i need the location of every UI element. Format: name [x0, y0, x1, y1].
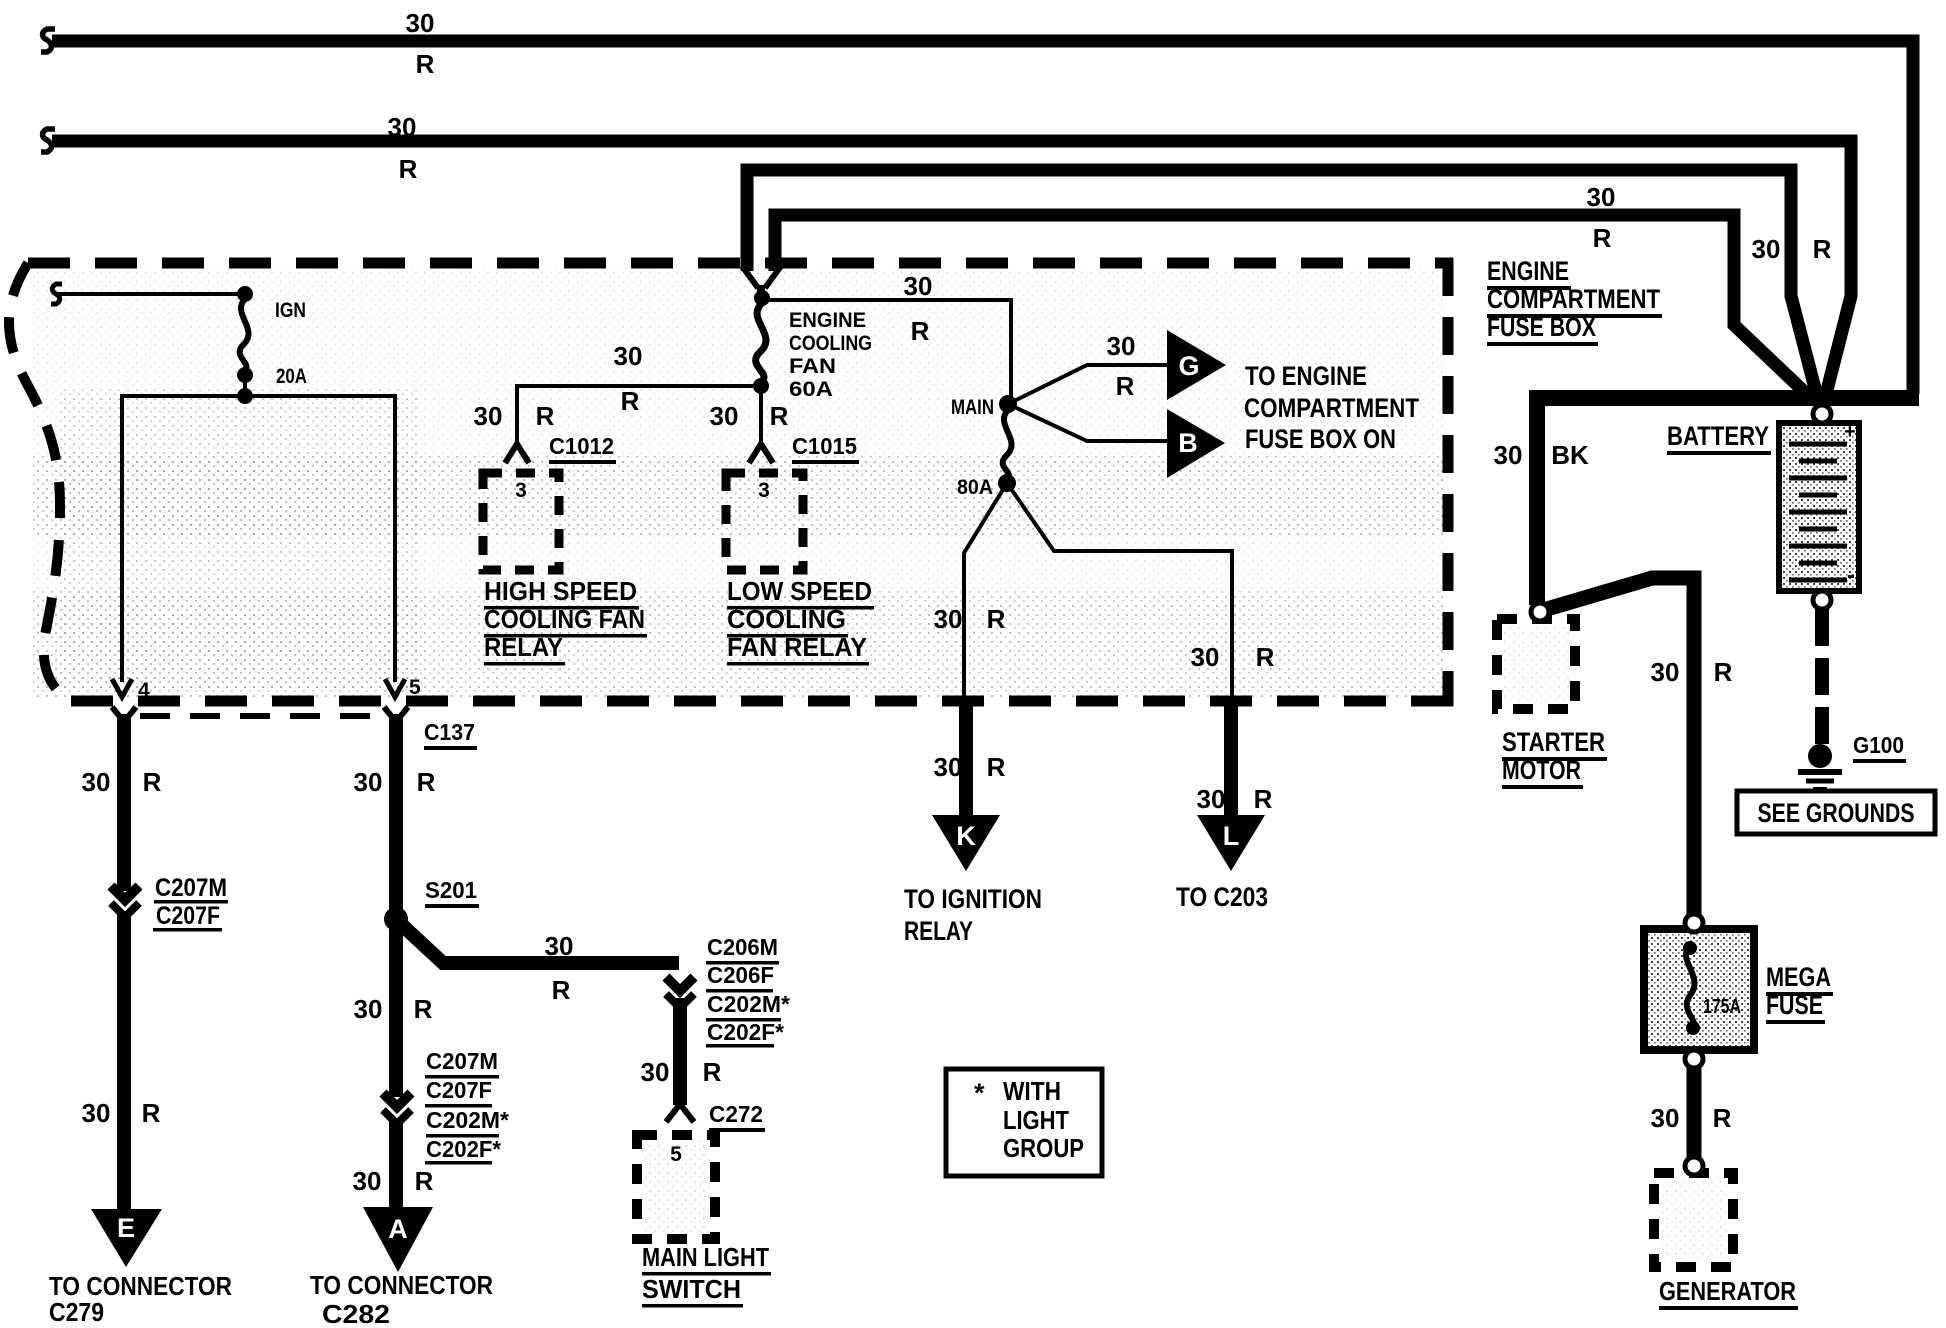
svg-text:BATTERY: BATTERY — [1667, 421, 1769, 451]
wire 30 R pin 4 to C207M connector — [117, 714, 131, 891]
svg-text:3: 3 — [515, 479, 527, 502]
svg-text:GROUP: GROUP — [1003, 1133, 1084, 1163]
triangle connector B — [1167, 409, 1225, 478]
svg-text:R: R — [703, 1057, 722, 1087]
svg-text:30: 30 — [1752, 234, 1781, 264]
svg-text:C202F*: C202F* — [426, 1136, 501, 1162]
svg-text:COMPARTMENT: COMPARTMENT — [1244, 393, 1419, 423]
mega fuse box — [1644, 929, 1754, 1050]
label TO ENGINE COMPARTMENT FUSE BOX ON — [1244, 361, 1419, 454]
label C207M C207F left — [153, 874, 228, 932]
svg-text:5: 5 — [409, 676, 421, 699]
wire 30 R top bus A: horizontal run and right vertical to battery — [52, 41, 1913, 394]
starter motor dashed box — [1497, 619, 1575, 709]
engine compartment fuse box dashed border: bottom edge — [70, 696, 1453, 707]
connector C1015 fork — [749, 444, 773, 463]
svg-text:ENGINE: ENGINE — [789, 309, 866, 332]
label MAIN LIGHT SWITCH — [642, 1242, 771, 1308]
svg-text:S201: S201 — [425, 877, 477, 903]
wire 30 R S201 to lower C207M connector — [389, 919, 403, 1097]
label TO CONNECTOR C279 — [49, 1271, 232, 1327]
node at 60A fuse bottom — [753, 378, 769, 394]
node on distribution rail — [237, 388, 253, 404]
generator dashed box — [1654, 1173, 1733, 1267]
svg-text:5: 5 — [670, 1143, 682, 1166]
svg-text:30: 30 — [82, 1098, 111, 1128]
high speed cooling fan relay pin 3 dashed box — [483, 473, 559, 570]
main light switch pin 5 dashed box — [637, 1135, 715, 1239]
svg-text:30: 30 — [82, 767, 111, 797]
svg-text:MAIN LIGHT: MAIN LIGHT — [642, 1242, 769, 1272]
note box WITH LIGHT GROUP — [946, 1069, 1102, 1176]
svg-text:20A: 20A — [276, 365, 307, 388]
svg-text:30: 30 — [354, 994, 383, 1024]
svg-text:LIGHT: LIGHT — [1003, 1105, 1069, 1135]
svg-text:30: 30 — [1587, 182, 1616, 212]
svg-text:STARTER: STARTER — [1502, 727, 1605, 757]
svg-text:30: 30 — [710, 401, 739, 431]
svg-text:BK: BK — [1551, 440, 1589, 470]
svg-text:IGN: IGN — [275, 299, 306, 322]
wire 30 R bus B: S-hook left end — [41, 129, 55, 152]
wire 30 R bus D: up from fuse box, right run, 45 slant to battery — [775, 215, 1813, 400]
label ENGINE COMPARTMENT FUSE BOX — [1487, 256, 1662, 346]
svg-text:C207M: C207M — [155, 874, 227, 902]
svg-text:30: 30 — [406, 8, 435, 38]
svg-text:C137: C137 — [424, 719, 475, 745]
label TO CONNECTOR C282 — [310, 1270, 493, 1328]
distribution rail rectangle to pins 4 and 5 — [122, 396, 395, 682]
low speed cooling fan relay pin 3 dashed box — [726, 473, 803, 570]
svg-text:+: + — [1844, 421, 1856, 443]
svg-text:C272: C272 — [709, 1101, 763, 1127]
triangle connector G — [1167, 330, 1226, 400]
svg-text:30: 30 — [934, 604, 963, 634]
wire from 80A node down-right to pin L — [1007, 483, 1232, 701]
battery plates — [1789, 444, 1847, 580]
terminal circle mega fuse top — [1685, 914, 1703, 932]
splice S201 node — [384, 907, 408, 931]
svg-text:60A: 60A — [789, 378, 833, 401]
svg-text:C206M: C206M — [707, 934, 778, 960]
terminal circle mega fuse bottom — [1685, 1050, 1703, 1068]
svg-text:R: R — [1813, 234, 1832, 264]
connector C207M C207F chevrons on right wire — [383, 1093, 411, 1107]
label STARTER MOTOR — [1502, 727, 1607, 789]
label TO IGNITION RELAY — [904, 884, 1042, 946]
engine compartment fuse box dashed border: right edge — [1443, 258, 1454, 706]
label MEGA FUSE — [1766, 962, 1833, 1024]
funnel connector where bus C and D enter fuse box — [742, 266, 781, 288]
svg-text:R: R — [1256, 642, 1275, 672]
wire 30 R fuse box pin L stub — [1224, 701, 1238, 817]
svg-text:30: 30 — [1107, 331, 1136, 361]
svg-text:C1015: C1015 — [792, 433, 857, 459]
svg-text:K: K — [956, 821, 976, 851]
svg-text:R: R — [987, 752, 1006, 782]
svg-text:COOLING FAN: COOLING FAN — [484, 604, 645, 634]
svg-text:MEGA: MEGA — [1766, 962, 1831, 992]
wire 30 R mega fuse to generator — [1687, 1068, 1702, 1157]
svg-text:175A: 175A — [1703, 996, 1741, 1018]
wire 30 R C207F to arrow E — [117, 911, 131, 1212]
svg-text:LOW SPEED: LOW SPEED — [727, 576, 872, 606]
wire 30 R top bus A: S-hook left end — [41, 29, 55, 52]
node at IGN fuse bottom — [237, 367, 253, 383]
svg-text:COMPARTMENT: COMPARTMENT — [1487, 284, 1660, 314]
svg-text:30: 30 — [474, 401, 503, 431]
svg-text:SEE GROUNDS: SEE GROUNDS — [1758, 798, 1915, 828]
engine compartment fuse box interior stipple — [32, 268, 1444, 698]
label WITH LIGHT GROUP — [1003, 1076, 1084, 1163]
mega fuse 175A wavy element — [1686, 945, 1695, 1030]
svg-text:GENERATOR: GENERATOR — [1659, 1276, 1796, 1306]
wire 30 BK battery to starter motor — [1529, 398, 1545, 605]
label G100 — [1853, 732, 1906, 763]
connector C206M C206F chevrons — [666, 977, 694, 991]
svg-text:R: R — [416, 49, 435, 79]
svg-text:30: 30 — [641, 1057, 670, 1087]
svg-text:R: R — [142, 1098, 161, 1128]
battery box — [1779, 423, 1859, 591]
wire 30 R bus B: horizontal run, right vertical, slant to battery — [52, 141, 1851, 398]
wire 30 R S201 branch to C206M — [402, 925, 679, 963]
label BATTERY — [1667, 421, 1771, 455]
svg-text:TO ENGINE: TO ENGINE — [1245, 361, 1367, 391]
wire 30 R to arrow A — [389, 1118, 403, 1212]
svg-text:C207F: C207F — [156, 902, 220, 930]
svg-text:30: 30 — [1494, 440, 1523, 470]
svg-text:4: 4 — [138, 679, 150, 702]
node 80A — [998, 474, 1016, 492]
wire 30 R from 60A fuse node to connector C1012 — [517, 386, 761, 444]
svg-text:80A: 80A — [957, 476, 993, 499]
svg-text:R: R — [987, 604, 1006, 634]
terminal circle at starter motor — [1531, 603, 1549, 621]
wire 30 R C206 connector to C272 — [673, 998, 687, 1105]
svg-text:-: - — [1847, 562, 1855, 589]
svg-text:TO CONNECTOR: TO CONNECTOR — [310, 1270, 493, 1300]
svg-text:R: R — [621, 386, 640, 416]
wire 30 R bus C: up from fuse box, right run, down to battery — [747, 170, 1817, 396]
svg-text:R: R — [1116, 371, 1135, 401]
svg-text:C202F*: C202F* — [707, 1019, 784, 1045]
svg-text:COOLING: COOLING — [727, 604, 846, 634]
svg-text:C202M*: C202M* — [707, 991, 790, 1017]
svg-text:C282: C282 — [322, 1299, 390, 1328]
ground G100 symbol — [1808, 744, 1832, 768]
svg-text:HIGH SPEED: HIGH SPEED — [484, 576, 637, 606]
label HIGH SPEED COOLING FAN RELAY — [484, 576, 647, 666]
svg-text:FAN: FAN — [789, 355, 836, 378]
connector C137 dashed tie line — [140, 713, 380, 719]
connector C272 fork — [666, 1104, 694, 1122]
svg-text:*: * — [974, 1078, 985, 1108]
svg-text:SWITCH: SWITCH — [642, 1274, 741, 1304]
svg-text:R: R — [417, 767, 436, 797]
svg-text:R: R — [399, 154, 418, 184]
svg-text:30: 30 — [1651, 1103, 1680, 1133]
svg-text:30: 30 — [904, 271, 933, 301]
svg-text:COOLING: COOLING — [789, 332, 872, 355]
arrow E to connector C279 — [91, 1209, 162, 1267]
svg-text:30: 30 — [354, 767, 383, 797]
svg-text:MAIN: MAIN — [951, 396, 994, 419]
battery terminal circle bottom — [1813, 591, 1831, 609]
svg-text:TO C203: TO C203 — [1176, 882, 1268, 912]
svg-text:R: R — [143, 767, 162, 797]
svg-text:B: B — [1178, 428, 1198, 458]
svg-text:C206F: C206F — [707, 962, 774, 988]
fuse MAIN 80A wavy element — [1003, 410, 1012, 478]
arrowhead pin 4 — [112, 679, 132, 697]
svg-text:C207F: C207F — [426, 1077, 492, 1103]
svg-text:G100: G100 — [1853, 732, 1904, 758]
svg-text:R: R — [1593, 223, 1612, 253]
svg-text:R: R — [1714, 657, 1733, 687]
node at IGN fuse top — [237, 286, 253, 302]
svg-text:30: 30 — [1197, 784, 1226, 814]
svg-text:R: R — [1254, 784, 1273, 814]
svg-text:30: 30 — [353, 1166, 382, 1196]
svg-text:G: G — [1178, 351, 1199, 381]
svg-text:C279: C279 — [49, 1297, 104, 1327]
label ENGINE COOLING FAN 60A — [789, 309, 872, 401]
svg-text:FUSE BOX ON: FUSE BOX ON — [1245, 424, 1396, 454]
IGN feed wire: S-hook left end — [51, 284, 62, 304]
label C207M C207F C202M C202F right — [425, 1048, 509, 1165]
connector C137 fork on right wire — [384, 707, 408, 722]
wire 30 R fuse box pin K stub — [959, 701, 973, 817]
wire from MAIN node to triangle G — [1008, 365, 1167, 404]
note box SEE GROUNDS — [1737, 791, 1935, 834]
svg-text:WITH: WITH — [1003, 1076, 1061, 1106]
engine compartment fuse box dashed border: wavy left edge — [9, 263, 70, 701]
svg-text:FAN RELAY: FAN RELAY — [727, 632, 867, 662]
svg-text:MOTOR: MOTOR — [1502, 755, 1581, 785]
label C206M C206F C202M C202F — [706, 934, 790, 1048]
svg-text:30: 30 — [388, 112, 417, 142]
label LOW SPEED COOLING FAN RELAY — [727, 576, 874, 666]
svg-text:R: R — [911, 316, 930, 346]
svg-text:30: 30 — [545, 931, 574, 961]
svg-text:TO IGNITION: TO IGNITION — [904, 884, 1042, 914]
svg-text:30: 30 — [934, 752, 963, 782]
node MAIN — [999, 395, 1017, 413]
svg-text:30: 30 — [614, 341, 643, 371]
svg-text:R: R — [536, 401, 555, 431]
svg-text:R: R — [415, 1166, 434, 1196]
svg-text:3: 3 — [758, 479, 770, 502]
terminal circle generator — [1685, 1157, 1703, 1175]
wire from 80A node down-left to pin K — [964, 483, 1007, 701]
battery terminal circle top — [1813, 405, 1831, 423]
wire starter motor to mega fuse — [1547, 578, 1694, 916]
arrowhead pin 5 — [385, 679, 405, 697]
svg-text:ENGINE: ENGINE — [1487, 256, 1569, 286]
wire from MAIN node to triangle B — [1008, 404, 1167, 441]
svg-text:C207M: C207M — [426, 1048, 498, 1074]
IGN feed wire horizontal — [58, 292, 245, 296]
svg-text:E: E — [117, 1213, 135, 1243]
svg-text:R: R — [552, 975, 571, 1005]
svg-text:30: 30 — [1651, 657, 1680, 687]
svg-text:A: A — [388, 1214, 408, 1244]
arrow L to C203 — [1197, 815, 1265, 871]
svg-text:FUSE: FUSE — [1766, 990, 1823, 1020]
connector C1012 fork — [505, 444, 529, 463]
fuse ENGINE COOLING FAN 60A wavy element — [756, 303, 766, 381]
battery ground dashed wire — [1815, 609, 1829, 748]
svg-text:C1012: C1012 — [549, 433, 614, 459]
wire 30 R from 60A fuse top to MAIN node — [762, 300, 1011, 400]
arrow A to connector C282 — [363, 1207, 433, 1272]
svg-text:R: R — [770, 401, 789, 431]
svg-text:RELAY: RELAY — [484, 632, 563, 662]
wire 30 R pin 5 to splice S201 — [389, 714, 403, 919]
svg-text:R: R — [414, 994, 433, 1024]
arrow K to ignition relay — [932, 815, 1000, 871]
engine compartment fuse box dashed border: top edge — [28, 258, 1453, 269]
fuse IGN 20A wavy element — [240, 299, 249, 370]
node at 60A fuse top — [754, 290, 770, 306]
svg-text:RELAY: RELAY — [904, 916, 973, 946]
wire from 60A fuse node down to connector C1015 — [759, 386, 763, 444]
wire horizontal above battery joining BK wire and bus A — [1529, 390, 1919, 406]
connector C207M C207F chevrons on left wire — [111, 886, 139, 900]
svg-text:30: 30 — [1191, 642, 1220, 672]
wire IGN fuse to distribution rail — [243, 375, 247, 396]
svg-text:C202M*: C202M* — [426, 1107, 509, 1133]
connector C137 fork on left wire — [112, 707, 136, 722]
label GENERATOR — [1659, 1276, 1798, 1310]
svg-text:R: R — [1713, 1103, 1732, 1133]
svg-text:FUSE BOX: FUSE BOX — [1487, 312, 1596, 342]
svg-text:L: L — [1223, 821, 1240, 851]
